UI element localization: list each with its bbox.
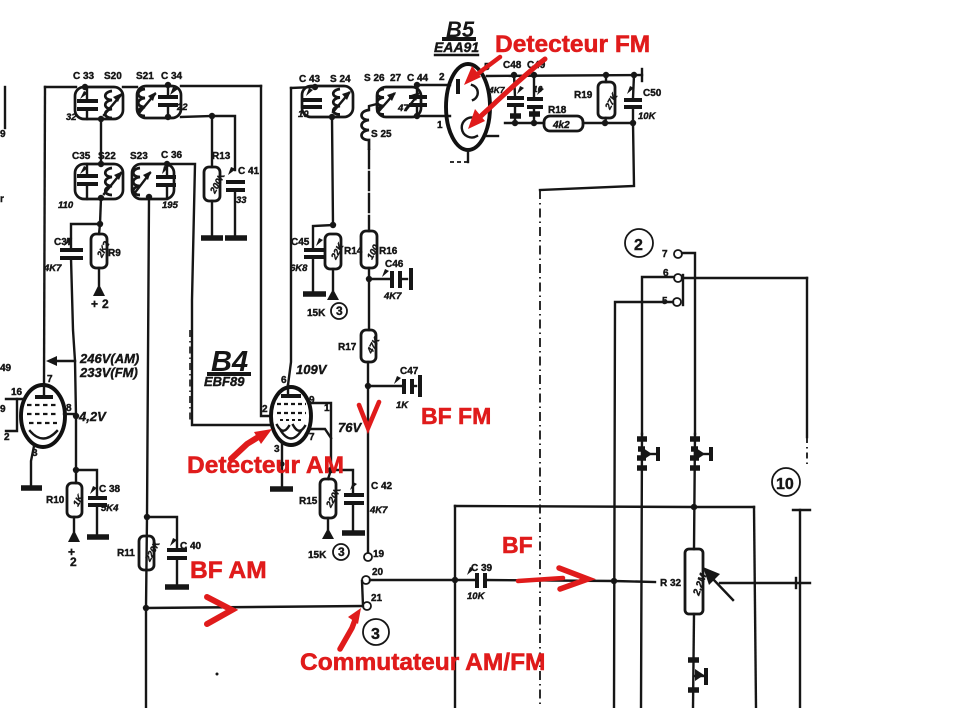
annotation arrow FM lower [468, 59, 545, 129]
inductor S26 [377, 89, 384, 115]
tube B5 lower diode arc [462, 117, 477, 137]
svg-text:R13: R13 [212, 151, 231, 162]
wire C44 to B5 pin2 [417, 84, 450, 86]
wire C38 branch [76, 470, 97, 495]
tube B3 anode bar [35, 385, 53, 397]
svg-text:109V: 109V [296, 362, 328, 377]
svg-text:R17: R17 [338, 342, 357, 353]
node C50 top [631, 72, 637, 78]
svg-text:16: 16 [11, 387, 23, 398]
svg-text:R18: R18 [548, 105, 567, 116]
node C33 top [82, 84, 88, 90]
pin 6 connector [663, 268, 682, 282]
node C47 [365, 383, 371, 389]
core arrow S21 [139, 92, 156, 113]
resistor R19 [598, 75, 620, 123]
svg-text:BF FM: BF FM [421, 403, 491, 429]
tube B3 cathode arc [30, 431, 57, 439]
shielded FM AF dash-dot line [539, 190, 541, 708]
svg-text:EBF89: EBF89 [204, 374, 245, 389]
resistor R17 [361, 330, 382, 362]
wire R11 rail to bottom [145, 608, 147, 708]
svg-text:C 39: C 39 [471, 563, 493, 574]
svg-text:r: r [0, 194, 4, 205]
node BF AM left [143, 605, 149, 611]
speck [216, 673, 219, 676]
tube B5 upper diode arc [472, 85, 478, 100]
svg-text:2: 2 [70, 555, 77, 569]
rail arrow below R15 [322, 528, 334, 539]
capacitor C49 [527, 75, 544, 123]
wire pin6 right [682, 277, 807, 279]
svg-text:BF AM: BF AM [190, 557, 267, 584]
trimmer tap on rail 695 [690, 439, 711, 468]
annotation arrow FM upper [464, 57, 500, 85]
circled 3 commutateur [363, 619, 389, 645]
wire B4 pins 9/1 [309, 403, 331, 470]
svg-text:C48: C48 [503, 60, 522, 71]
wire S25 to R16 [368, 150, 370, 231]
capacitor C42 [344, 482, 364, 531]
rail arrow 2 below R10 [68, 530, 80, 569]
svg-text:10K: 10K [638, 111, 657, 122]
label B5 [434, 17, 479, 55]
svg-text:246V(AM): 246V(AM) [79, 351, 139, 366]
svg-text:C37: C37 [54, 237, 73, 248]
svg-text:+: + [91, 297, 98, 311]
wire C40 branch [147, 517, 177, 547]
svg-text:9: 9 [309, 395, 315, 406]
wire pin7 to rail [682, 253, 695, 434]
svg-text:15K: 15K [308, 550, 327, 561]
svg-text:110: 110 [58, 200, 74, 211]
node R13 top [209, 113, 215, 119]
node C50 bottom [630, 120, 636, 126]
svg-text:4k2: 4k2 [552, 120, 570, 131]
wire R17 to node C47 [367, 362, 369, 386]
wire anode rail to B4 pin6 [288, 88, 291, 385]
svg-text:Detecteur AM: Detecteur AM [187, 452, 344, 479]
wire wiper output [720, 582, 810, 584]
wire right branch down [754, 507, 756, 708]
wiper arrow R32 [703, 567, 733, 600]
wire R32 bottom [693, 614, 694, 708]
label 15K(3) lower [308, 544, 349, 561]
resistor R15 [320, 470, 344, 529]
svg-text:C 41: C 41 [238, 166, 260, 177]
svg-text:1: 1 [437, 120, 443, 131]
svg-text:2: 2 [262, 404, 268, 415]
svg-text:R11: R11 [117, 548, 135, 559]
core arrow S23 [134, 171, 151, 194]
tuned circuit loop S21/C34 [137, 86, 181, 118]
wire left rail to pin7 [44, 87, 45, 384]
svg-text:7: 7 [662, 249, 668, 260]
triode B3 envelope [21, 385, 65, 447]
point 20 [362, 567, 384, 584]
svg-text:C45: C45 [291, 237, 310, 248]
section dash-dot line [189, 330, 191, 420]
pin 7 connector [662, 249, 682, 260]
capacitor C46 [369, 268, 411, 290]
resistor R9 [91, 224, 112, 285]
svg-text:S21: S21 [136, 71, 154, 82]
wiper wire tick [795, 578, 797, 588]
svg-text:220K: 220K [323, 484, 343, 510]
tuned circuit loop S23/C36 [132, 164, 174, 199]
wire R18 to C50 bottom [583, 122, 633, 124]
svg-text:S 25: S 25 [371, 129, 392, 140]
node loop2 top [98, 161, 104, 167]
tube B4 heater arc [281, 431, 301, 439]
point 19 [364, 549, 385, 561]
svg-text:R15: R15 [299, 496, 318, 507]
wire B5 top pin to bus [487, 75, 642, 76]
ground C41 [225, 235, 247, 241]
pin 5 connector [662, 296, 681, 307]
wire FM AF down from C50 node [540, 123, 634, 190]
svg-text:22: 22 [176, 102, 188, 113]
node R19 top [603, 72, 609, 78]
node C37/R9 junction [97, 221, 103, 227]
tuned circuit loop C33/S20 [75, 87, 123, 119]
capacitor C44 [406, 85, 427, 116]
node R14 top [330, 222, 336, 228]
wire S23 rail down to R11 [146, 198, 149, 608]
svg-text:76V: 76V [338, 420, 362, 435]
core arrow S24 [333, 91, 351, 112]
svg-text:27K: 27K [602, 90, 620, 111]
rail arrow 2 below R9 [91, 284, 109, 311]
svg-text:S23: S23 [130, 151, 148, 162]
ground B3 cathode [21, 485, 42, 491]
wire rail 695 to R32 [694, 434, 695, 549]
svg-text:27: 27 [390, 73, 402, 84]
wire S24 to R14 [332, 117, 333, 225]
wire left AF rail down [454, 506, 456, 708]
svg-text:9: 9 [0, 404, 6, 415]
wire detector output bottom [505, 122, 544, 124]
node C49 top [531, 72, 537, 78]
resistor R11 [139, 536, 163, 570]
switch bar 6-5 [682, 275, 684, 305]
wire pin2 [6, 399, 17, 431]
node S24 bottom [329, 114, 335, 120]
wire pin3 to ground [31, 446, 34, 486]
switch wiper bar 20-21 [362, 581, 363, 606]
wire loop2 to node [100, 198, 101, 224]
tube B4 cathode chevrons [277, 425, 305, 431]
svg-text:4K7: 4K7 [369, 505, 388, 516]
wire supply horizontal [455, 506, 754, 507]
capacitor C48 [507, 75, 524, 123]
point 21 [363, 593, 383, 610]
wire top bus left [45, 86, 76, 88]
capacitor C47 [368, 375, 420, 397]
wire C36 to grid rail [167, 164, 270, 425]
wire C37 down rail to R10 [71, 258, 76, 483]
annotation arrow Commutateur [340, 608, 361, 649]
label 15K(3) [307, 303, 347, 319]
svg-text:6K8: 6K8 [290, 263, 308, 274]
capacitor C37 [60, 238, 83, 258]
svg-text:195: 195 [162, 200, 179, 211]
svg-text:1K: 1K [71, 492, 86, 508]
node R10 top [73, 467, 79, 473]
svg-text:49: 49 [0, 363, 12, 374]
inductor S24 [333, 89, 340, 115]
svg-text:6: 6 [281, 375, 287, 386]
inductor S22 [105, 168, 112, 195]
node C48 bottom [512, 120, 518, 126]
tuned circuit loop S26/C44 [377, 87, 421, 117]
svg-text:C 36: C 36 [161, 150, 183, 161]
wire right rail solid [806, 278, 808, 437]
svg-text:4K7: 4K7 [43, 263, 62, 274]
resistor R16 [361, 231, 381, 279]
svg-text:C 42: C 42 [371, 481, 393, 492]
svg-text:C 40: C 40 [180, 541, 202, 552]
svg-text:Detecteur FM: Detecteur FM [495, 31, 650, 58]
capacitor C39 [467, 567, 485, 588]
capacitor C41 [226, 167, 245, 237]
wire AM rail down to B4 pin2 [261, 86, 269, 416]
border fragment left edge [0, 87, 6, 205]
node C48 top [511, 72, 517, 78]
resistor R13 [204, 116, 228, 237]
tube B4 grid dashes [277, 404, 306, 420]
rail arrow below R14 [327, 289, 339, 300]
wire B4 pin 3 [281, 444, 283, 487]
capacitor C50 [624, 75, 642, 123]
svg-text:32: 32 [66, 112, 77, 123]
inductor S20 [105, 91, 112, 118]
svg-text:200K: 200K [207, 170, 227, 196]
core arrow S20 [104, 93, 122, 115]
capacitor C40 [167, 538, 187, 585]
wire loop2 to C34 top right [181, 85, 261, 87]
node pin8 [73, 413, 79, 419]
connector circle 2 [625, 229, 653, 257]
svg-text:S 26: S 26 [364, 73, 385, 84]
wire R13 node to C41 [212, 116, 235, 170]
svg-text:R16: R16 [379, 246, 398, 257]
node C36 top [164, 161, 170, 167]
annotation arrow Detecteur AM [231, 429, 272, 459]
ground C38 [87, 534, 109, 540]
svg-text:19: 19 [373, 549, 385, 560]
wire right rail dashed [806, 437, 808, 468]
node R19 bottom [602, 120, 608, 126]
svg-text:5K4: 5K4 [101, 503, 119, 514]
ground R13 [201, 235, 223, 241]
svg-text:3: 3 [371, 626, 380, 643]
annotation chevron BF AM [207, 597, 232, 624]
ground B4 cathode [270, 486, 293, 492]
svg-text:10: 10 [776, 476, 794, 493]
tube B5 pin7 stub [450, 150, 468, 162]
tuned circuit loop C43/S24 [302, 86, 353, 117]
trimmer tap below R32 [688, 660, 706, 690]
svg-text:C 38: C 38 [99, 484, 121, 495]
inductor S25 [362, 104, 378, 150]
node C43 top [312, 84, 318, 90]
wire loop1 to loop2 [100, 119, 102, 164]
core arrow S22 [104, 171, 123, 194]
svg-text:3: 3 [336, 304, 343, 318]
inductor S21 [138, 89, 145, 116]
ground C40 [165, 584, 189, 590]
node pin3 [279, 461, 284, 466]
wire far right bracket [793, 510, 810, 708]
svg-text:C50: C50 [643, 88, 662, 99]
svg-text:C47: C47 [400, 366, 419, 377]
svg-text:47K: 47K [364, 334, 382, 355]
svg-text:EAA91: EAA91 [434, 39, 479, 55]
node C44 top [414, 82, 420, 88]
svg-text:7: 7 [309, 432, 315, 443]
svg-text:10: 10 [298, 109, 309, 120]
wire to C43 loop [291, 87, 315, 88]
wire loop to B5 pin1 [421, 115, 450, 117]
svg-text:Commutateur AM/FM: Commutateur AM/FM [300, 649, 545, 676]
trimmer tap on rail 642 [637, 439, 658, 468]
resistor R18 [544, 116, 583, 131]
tube B5 bottom fragment [486, 135, 498, 137]
svg-text:8: 8 [66, 403, 72, 414]
inductor S23 [133, 168, 140, 195]
svg-text:C35: C35 [72, 151, 91, 162]
svg-text:2: 2 [102, 297, 109, 311]
svg-text:4,2V: 4,2V [78, 409, 107, 424]
svg-text:4K7: 4K7 [383, 291, 402, 302]
wire R16 to R17 [368, 279, 370, 330]
svg-text:21: 21 [371, 593, 383, 604]
potentiometer R32 [685, 549, 710, 614]
tuned circuit loop C35/S22 [75, 164, 123, 199]
svg-text:R10: R10 [46, 495, 65, 506]
wire pin16 [6, 398, 23, 400]
svg-text:R 32: R 32 [660, 578, 682, 589]
svg-text:BF: BF [502, 532, 533, 558]
bus end tick [641, 69, 643, 81]
wire FM rail down to point19 [367, 386, 369, 553]
capacitor C38 [88, 486, 107, 535]
wire node to C37 [71, 224, 100, 247]
svg-text:C46: C46 [385, 259, 404, 270]
svg-text:10K: 10K [467, 591, 486, 602]
wire C34 bottom to R13 node [181, 116, 212, 117]
capacitor C36 [156, 164, 176, 199]
svg-text:1: 1 [324, 403, 330, 414]
connector circle 10 [772, 468, 800, 496]
diode tube B5 envelope [446, 64, 490, 150]
capacitor C33 [77, 87, 98, 119]
tube B3 grid dashes [27, 405, 59, 423]
svg-text:C 43: C 43 [299, 74, 321, 85]
wire BF from point20 [370, 579, 474, 581]
node BF x455 [452, 577, 458, 583]
ground C45 [303, 291, 326, 297]
node R16 bottom [366, 276, 372, 282]
wire C45 branch [313, 225, 333, 248]
ground C42 [342, 530, 365, 536]
wire BF AM [146, 606, 363, 608]
wire BF to R32 [485, 580, 655, 582]
wire C42 branch [331, 470, 353, 492]
node supply junction [691, 504, 697, 510]
triode B4 envelope [271, 387, 311, 445]
svg-text:2: 2 [4, 432, 10, 443]
svg-text:2: 2 [634, 237, 643, 254]
svg-text:S22: S22 [98, 151, 116, 162]
svg-text:7: 7 [47, 374, 53, 385]
node R11 top [144, 514, 150, 520]
annotation check BF FM [359, 402, 379, 428]
arrow 246V [46, 356, 75, 366]
svg-text:20: 20 [372, 567, 384, 578]
core arrow S26 [379, 92, 396, 111]
capacitor C35 [77, 164, 98, 199]
node C34 top [165, 82, 171, 88]
node C49 bottom [531, 120, 537, 126]
node BF x614 [611, 578, 617, 584]
node R15 top [328, 467, 334, 473]
svg-text:33: 33 [236, 195, 247, 206]
svg-text:C 33: C 33 [73, 71, 95, 82]
svg-text:C 34: C 34 [161, 71, 183, 82]
svg-text:233V(FM): 233V(FM) [79, 365, 138, 380]
svg-text:R9: R9 [108, 248, 121, 259]
svg-text:3: 3 [338, 545, 345, 559]
wire rail 642 to bottom [641, 434, 642, 708]
tube B4 anode bar [281, 385, 301, 396]
wire pin8 to rail [64, 413, 76, 415]
svg-text:1K: 1K [396, 400, 409, 411]
svg-text:S20: S20 [104, 71, 122, 82]
capacitor C45 [304, 238, 324, 292]
wire pin5 left down rail [614, 302, 673, 708]
svg-text:15K: 15K [307, 308, 326, 319]
node loop S21 bottom [165, 114, 171, 120]
wire B4 pin 7 [310, 429, 331, 438]
label B4 [204, 346, 251, 389]
node C44 bottom [414, 113, 420, 119]
svg-text:2: 2 [439, 72, 445, 83]
wire loop1-loop2 gap [123, 86, 137, 88]
capacitor C34 [158, 85, 178, 118]
node S23 bottom [146, 194, 152, 200]
capacitor C43 [303, 88, 322, 107]
svg-text:S 24: S 24 [330, 74, 351, 85]
svg-text:R19: R19 [574, 90, 593, 101]
wire pin6 left down rail [642, 277, 674, 434]
node loop1 bottom [98, 116, 104, 122]
annotation arrow BF [518, 568, 588, 589]
svg-text:9: 9 [0, 129, 6, 140]
resistor R14 [325, 234, 346, 290]
tube B5 plate bar [456, 79, 460, 94]
node loop2 bottom [98, 195, 104, 201]
resistor R10 [67, 483, 86, 531]
